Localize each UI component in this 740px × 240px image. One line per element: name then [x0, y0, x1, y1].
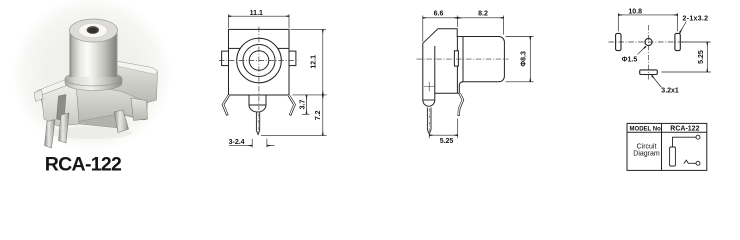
front plate ledge line right: [277, 47, 289, 49]
center hole: [87, 26, 99, 34]
dim 8.2 line: [458, 17, 504, 19]
front dimensions: [229, 14, 327, 147]
dim 12.1 line: [322, 29, 324, 95]
svg-text:10.8: 10.8: [628, 9, 642, 16]
leader 2-1x3.2: [680, 22, 687, 33]
svg-text:5.25: 5.25: [698, 50, 705, 64]
svg-text:3.7: 3.7: [299, 100, 306, 110]
side center line: [417, 58, 509, 60]
barrel cylinder: [70, 30, 118, 78]
dim 6.6/8.2 extension lines: [423, 16, 504, 42]
connector shadow: [48, 127, 132, 139]
dim 7.2 extension line: [261, 134, 327, 136]
left leg front: [223, 95, 229, 115]
right side tab: [289, 51, 296, 66]
dim 5.25 extension lines: [429, 119, 458, 139]
pin hole center mark: [424, 82, 435, 91]
tip terminal circle: [696, 135, 700, 139]
dim 5.25 line: [429, 134, 458, 136]
svg-text:Φ8.3: Φ8.3: [521, 51, 528, 67]
table vertical divider: [661, 123, 663, 170]
horizontal center line front: [219, 60, 299, 62]
shroud chord line: [249, 104, 266, 106]
leg pin left-front: [45, 120, 56, 149]
side bent leg: [459, 93, 463, 115]
dim 8.3 extension lines: [506, 37, 534, 82]
front plate ledge line left: [229, 47, 241, 49]
svg-text:12.1: 12.1: [311, 55, 318, 69]
center pin side: [427, 108, 431, 135]
bracket interior: [40, 81, 146, 128]
svg-text:3.2x1: 3.2x1: [661, 88, 679, 95]
dim 5.25 extension lines (top view): [662, 42, 711, 72]
front body outline: [229, 29, 290, 95]
right bent leg: [114, 110, 129, 133]
dim 6.6 line: [423, 17, 458, 19]
plate inner line: [434, 46, 436, 93]
bracket right face: [76, 83, 148, 122]
table outer border: [627, 123, 707, 170]
svg-text:6.6: 6.6: [434, 11, 444, 18]
dim 3.7 line: [306, 95, 308, 114]
horizontal center line top view: [609, 41, 688, 43]
dim 10.8 extension lines: [618, 13, 677, 31]
front center lines: [219, 27, 299, 132]
pin center line side: [428, 109, 430, 132]
svg-text:Φ1.5: Φ1.5: [622, 57, 638, 64]
right far tab: [131, 98, 148, 121]
bottom slot 3.2x1: [640, 70, 658, 75]
dim 3-2.4 arrow right: [267, 145, 275, 147]
leader 3.2x1: [652, 76, 662, 88]
svg-text:MODEL No.: MODEL No.: [630, 126, 663, 132]
vertical center line front: [258, 27, 260, 110]
svg-text:RCA-122: RCA-122: [670, 125, 699, 132]
barrel middle circle: [243, 45, 275, 77]
bracket front-left face: [42, 82, 80, 126]
svg-text:2-1x3.2: 2-1x3.2: [683, 15, 709, 22]
dim 5.25 line (top view): [706, 42, 708, 72]
sleeve terminal circle: [696, 161, 700, 165]
barrel outer circle: [237, 38, 282, 83]
dim 8.3 line: [529, 37, 531, 82]
dim 12.1 extension lines: [291, 29, 327, 95]
svg-text:Diagram: Diagram: [633, 150, 660, 157]
svg-text:Circuit: Circuit: [637, 143, 657, 150]
right leg front: [289, 95, 295, 115]
top view dimensions: [618, 13, 711, 88]
photo background: [12, 0, 172, 152]
svg-text:7.2: 7.2: [315, 110, 322, 120]
dim 3-2.4 extension lines: [252, 139, 267, 148]
barrel back edge line: [462, 37, 464, 82]
side tab profile: [454, 51, 458, 66]
svg-text:RCA-122: RCA-122: [45, 154, 122, 176]
jack body rectangle: [670, 147, 676, 166]
top view center lines: [609, 25, 688, 80]
svg-text:3-2.4: 3-2.4: [229, 139, 245, 146]
right pad slot: [675, 33, 680, 50]
dim 11.1 extension lines: [229, 14, 290, 28]
table header divider: [627, 131, 707, 133]
front plate edge line: [456, 37, 458, 94]
dim 3-2.4 arrow left: [229, 145, 252, 147]
side outline: [423, 29, 505, 107]
barrel inner circle: [249, 51, 269, 71]
switch lever: [684, 160, 696, 163]
circuit diagram inside table: [670, 135, 700, 166]
wire tip to terminal: [673, 137, 696, 147]
svg-text:5.25: 5.25: [440, 138, 454, 145]
leg pin left-rear: [59, 113, 70, 143]
vertical center line top view: [648, 25, 650, 80]
plate chord line: [423, 99, 435, 101]
insulator ring: [79, 23, 108, 38]
barrel top face: [70, 19, 118, 42]
bracket right tall wall: [110, 60, 158, 103]
dim 10.8 line: [618, 14, 677, 16]
left wall tab: [34, 90, 43, 102]
bracket top rim highlight: [38, 71, 96, 96]
leader phi1.5: [638, 47, 646, 55]
pin center line front: [257, 114, 259, 133]
side dimensions: [423, 16, 534, 139]
svg-text:8.2: 8.2: [478, 11, 488, 18]
center pin front: [256, 112, 259, 134]
barrel flange: [65, 72, 122, 86]
svg-text:11.1: 11.1: [250, 10, 263, 17]
dim 3.7 extension line: [302, 113, 310, 115]
dim 7.2 line: [322, 95, 324, 135]
center shroud: [249, 95, 266, 112]
center hole: [645, 38, 652, 45]
dim 11.1 line: [229, 15, 290, 17]
left pad slot: [616, 33, 621, 50]
left side tab: [222, 51, 229, 66]
center contact post: [57, 95, 67, 122]
